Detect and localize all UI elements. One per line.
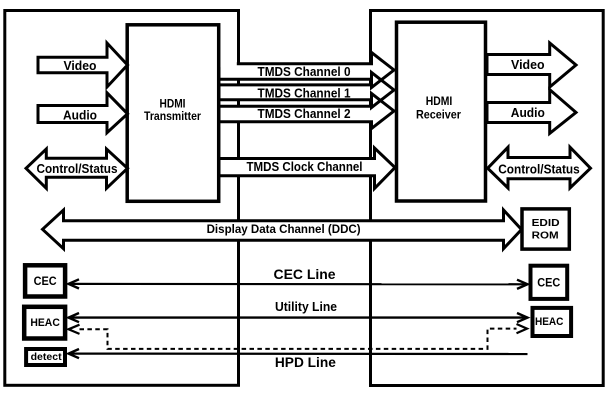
- svg-text:CEC: CEC: [34, 274, 57, 288]
- svg-text:TMDS Channel 2: TMDS Channel 2: [258, 107, 351, 121]
- CEC box right: [531, 266, 568, 299]
- svg-text:Transmitter: Transmitter: [144, 111, 201, 123]
- dashed link left arrowhead: [69, 325, 80, 334]
- TMDS Channel 0 arrow outline: [219, 53, 394, 88]
- svg-text:HDMI: HDMI: [426, 96, 453, 108]
- CEC line: [69, 283, 528, 286]
- svg-text:detect: detect: [31, 351, 62, 363]
- source device box (left outline): [5, 11, 239, 386]
- Audio arrow out of receiver: [487, 90, 576, 134]
- svg-text:TMDS Channel 0: TMDS Channel 0: [258, 65, 351, 79]
- dashed link right arrowhead: [517, 324, 528, 333]
- TMDS Channel 0 arrow top-left gap (white patch): [220, 62, 237, 68]
- Video arrow into transmitter: [38, 43, 128, 87]
- svg-text:Control/Status: Control/Status: [37, 161, 118, 176]
- HPD line: [69, 353, 528, 356]
- svg-text:Utility Line: Utility Line: [275, 299, 337, 314]
- Utility line right arrowhead: [517, 313, 528, 322]
- TMDS Channel 0 arrow fill: [219, 53, 394, 88]
- svg-text:Video: Video: [511, 57, 545, 72]
- CEC box left: [25, 265, 65, 296]
- dashed HEAC link path: [80, 329, 517, 349]
- svg-text:Video: Video: [64, 58, 97, 73]
- svg-text:Display Data Channel (DDC): Display Data Channel (DDC): [207, 222, 361, 236]
- svg-text:EDID: EDID: [532, 217, 560, 229]
- Audio arrow into transmitter: [38, 93, 128, 133]
- HDMI Transmitter box: [127, 25, 219, 202]
- TMDS Channel 1 arrow outline: [219, 73, 394, 108]
- HEAC box right: [533, 308, 572, 336]
- Display Data Channel (DDC) double arrow: [43, 210, 522, 249]
- TMDS Clock Channel arrow fill: [219, 148, 395, 189]
- CEC line left arrowhead: [69, 279, 80, 288]
- svg-text:CEC Line: CEC Line: [274, 267, 336, 282]
- TMDS Clock Channel arrow outline: [219, 148, 395, 189]
- TMDS Channel 2 arrow fill: [219, 94, 394, 129]
- svg-text:Receiver: Receiver: [416, 110, 461, 122]
- Utility line left arrowhead: [69, 313, 80, 322]
- HPD line left arrowhead: [69, 349, 80, 358]
- svg-text:HEAC: HEAC: [30, 317, 60, 329]
- HEAC box left: [24, 307, 65, 339]
- svg-text:Control/Status: Control/Status: [498, 162, 580, 177]
- Control/Status double arrow right: [488, 147, 591, 188]
- TMDS Channel 1 arrow fill: [219, 73, 394, 108]
- svg-text:TMDS Clock Channel: TMDS Clock Channel: [247, 160, 363, 174]
- svg-text:HPD Line: HPD Line: [275, 355, 336, 370]
- svg-text:TMDS Channel 1: TMDS Channel 1: [258, 86, 351, 100]
- Utility line: [69, 316, 528, 318]
- svg-text:HEAC: HEAC: [535, 316, 564, 328]
- HDMI Receiver box: [397, 22, 486, 201]
- svg-text:HDMI: HDMI: [160, 99, 186, 111]
- svg-text:Audio: Audio: [63, 107, 97, 122]
- svg-text:Audio: Audio: [511, 105, 545, 120]
- Control/Status double arrow left: [26, 149, 128, 188]
- svg-text:CEC: CEC: [537, 275, 560, 289]
- TMDS Channel 2 arrow outline: [219, 94, 394, 129]
- svg-text:ROM: ROM: [532, 230, 559, 242]
- EDID ROM box: [522, 209, 569, 249]
- detect box: [26, 349, 65, 365]
- Video arrow out of receiver: [487, 43, 576, 87]
- CEC line right arrowhead: [517, 280, 528, 289]
- sink device box (right outline): [371, 11, 604, 386]
